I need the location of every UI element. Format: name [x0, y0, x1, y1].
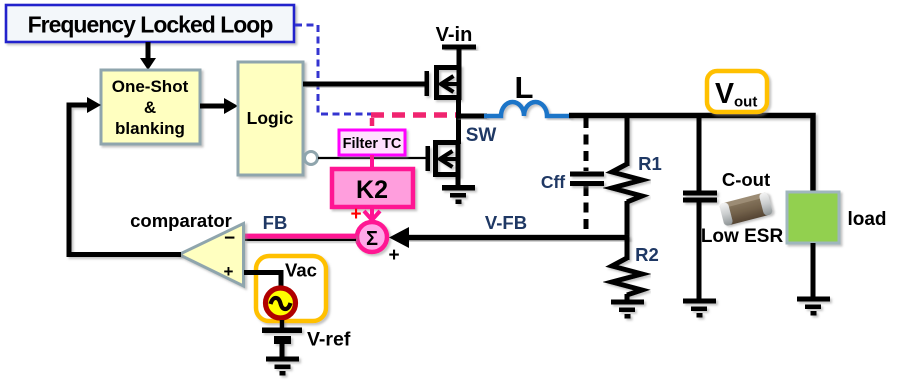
svg-text:load: load — [847, 209, 886, 230]
svg-text:&: & — [144, 98, 156, 117]
wire node SW to Q2 drain — [456, 116, 461, 144]
inverter bubble on Logic output — [305, 152, 318, 165]
Vac sine source V1 — [266, 288, 296, 318]
svg-text:SW: SW — [466, 125, 497, 146]
svg-text:K2: K2 — [356, 176, 388, 204]
filter TC box — [339, 130, 405, 155]
capacitor Cff plates — [570, 172, 604, 187]
wire V-FB from divider to summer — [398, 235, 629, 241]
wire bubble to Q2 gate — [318, 157, 427, 159]
wire Q2 source down — [456, 172, 461, 186]
svg-text:V: V — [715, 78, 734, 110]
FB wire sigma to comparator — [244, 234, 356, 241]
svg-text:Cff: Cff — [541, 172, 565, 192]
transistor Q1 high-side MOSFET — [425, 65, 460, 100]
MLCC chip graphic — [719, 192, 773, 227]
inductor L — [484, 102, 571, 116]
battery V-ref — [262, 320, 302, 357]
svg-text:V-FB: V-FB — [485, 212, 527, 233]
Frequency Locked Loop title box — [6, 5, 294, 42]
svg-text:+: + — [350, 204, 361, 225]
arrowhead into One-Shot — [87, 97, 101, 113]
svg-text:FB: FB — [263, 212, 288, 233]
svg-text:out: out — [734, 94, 757, 111]
load block — [787, 192, 839, 243]
arrow FLL to One-Shot — [140, 42, 156, 70]
Vout label box — [707, 71, 767, 112]
svg-text:R2: R2 — [635, 244, 659, 265]
pink dashed wire to node SW — [371, 112, 458, 118]
pink wire Filter TC to K2 — [370, 155, 374, 169]
wire Logic to Q1 gate — [303, 82, 426, 87]
Vout rail wire — [569, 116, 813, 195]
pink arrow K2 to summer — [364, 207, 380, 220]
svg-text:+: + — [388, 245, 399, 266]
capacitor C-out plates — [683, 191, 717, 203]
arrow One-Shot to Logic — [200, 98, 238, 114]
svg-text:+: + — [224, 262, 234, 281]
ground below load — [797, 297, 830, 316]
svg-text:V-ref: V-ref — [307, 329, 351, 351]
logic block U-LOGIC — [238, 62, 303, 175]
blue dashed wire FLL to SW sense — [295, 25, 371, 114]
comparator U-CMP — [179, 224, 244, 287]
wire Q1 source to node SW — [456, 95, 461, 118]
wire V-in to Q1 drain — [457, 47, 462, 68]
svg-text:V-in: V-in — [436, 24, 473, 46]
wire SW to inductor — [456, 114, 487, 119]
ground below R2 — [611, 300, 644, 319]
svg-text:Σ: Σ — [366, 228, 378, 250]
svg-text:One-Shot: One-Shot — [112, 77, 189, 96]
svg-text:C-out: C-out — [722, 169, 770, 190]
svg-text:Logic: Logic — [247, 108, 294, 128]
transistor Q2 low-side MOSFET — [426, 140, 459, 177]
one-shot block U-OS — [101, 70, 200, 144]
pink dashed stub to Filter TC — [370, 118, 375, 130]
svg-text:comparator: comparator — [130, 210, 232, 231]
capacitor Cff dashed branch — [584, 118, 589, 238]
svg-text:Filter TC: Filter TC — [343, 136, 402, 152]
summing node sigma — [357, 222, 387, 252]
resistor R1 — [612, 118, 642, 240]
ground below C-out — [683, 299, 716, 318]
svg-text:R1: R1 — [638, 153, 662, 174]
gain block K2 — [332, 169, 413, 207]
capacitor C-out branch wire — [697, 118, 702, 191]
svg-text:Low ESR: Low ESR — [701, 226, 784, 247]
arrowhead into summer — [389, 227, 409, 248]
svg-text:blanking: blanking — [115, 119, 185, 138]
comparator output feedback wire — [69, 105, 181, 255]
Vac source box — [256, 256, 326, 321]
resistor R2 — [612, 237, 642, 301]
svg-text:Frequency Locked Loop: Frequency Locked Loop — [28, 12, 274, 38]
wire comparator plus input to Vac — [244, 273, 281, 290]
svg-text:−: − — [224, 228, 235, 249]
capacitor C-out lower wire — [697, 202, 702, 300]
V-in supply bar — [442, 45, 476, 50]
svg-text:Vac: Vac — [285, 260, 317, 281]
ground below Q2 — [442, 185, 475, 204]
ground below V-ref — [266, 357, 299, 376]
svg-text:L: L — [515, 70, 534, 105]
wire load to ground — [811, 243, 816, 298]
